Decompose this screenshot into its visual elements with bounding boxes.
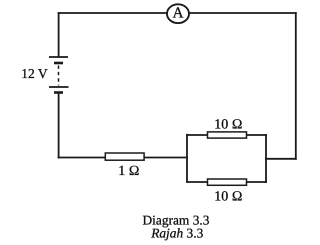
wire top from left corner to right corner bbox=[59, 12, 296, 14]
wire middle connector to right side bbox=[266, 158, 296, 160]
battery 12 V bbox=[49, 57, 69, 93]
battery long plate bottom bbox=[49, 86, 69, 88]
resistor 1 ohm bbox=[105, 153, 144, 160]
resistor 10 ohm bottom branch bbox=[208, 179, 247, 185]
ammeter A bbox=[167, 4, 189, 23]
svg-text:Rajah 3.3: Rajah 3.3 bbox=[150, 226, 203, 241]
battery dashed link bbox=[58, 66, 60, 86]
wire left side upper (top corner to battery) bbox=[58, 13, 60, 57]
wire left side lower (battery to bottom corner) bbox=[58, 93, 60, 158]
resistor 10 ohm top branch bbox=[208, 132, 247, 138]
svg-text:10 Ω: 10 Ω bbox=[214, 118, 242, 133]
svg-text:10 Ω: 10 Ω bbox=[214, 190, 242, 205]
node left junction of parallel branches bbox=[186, 135, 188, 182]
wire bottom branch right lead bbox=[247, 181, 267, 183]
svg-text:1 Ω: 1 Ω bbox=[118, 164, 139, 179]
wire bottom left (corner to 1 ohm resistor) bbox=[59, 157, 106, 159]
battery short plate top bbox=[54, 62, 63, 65]
battery long plate top bbox=[49, 56, 68, 58]
wire top branch left lead bbox=[187, 134, 208, 136]
wire top branch right lead bbox=[247, 134, 267, 136]
wire bottom right (1 ohm resistor to parallel left node) bbox=[144, 157, 187, 159]
battery short plate bottom bbox=[54, 91, 63, 94]
wire right side down to middle connector bbox=[295, 13, 297, 159]
svg-text:A: A bbox=[172, 5, 183, 22]
wire bottom branch left lead bbox=[187, 181, 208, 183]
node right junction of parallel branches bbox=[265, 135, 267, 182]
svg-text:12 V: 12 V bbox=[21, 66, 48, 81]
